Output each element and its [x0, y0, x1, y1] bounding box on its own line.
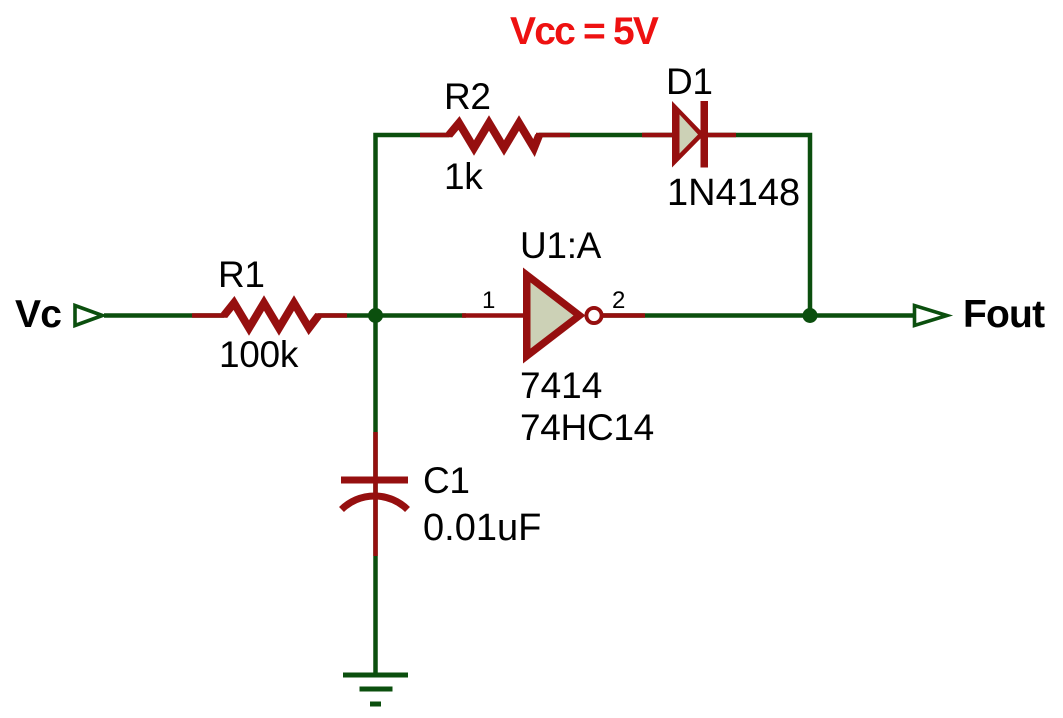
svg-text:2: 2	[612, 287, 625, 314]
svg-text:1: 1	[482, 287, 495, 314]
svg-text:D1: D1	[666, 61, 713, 102]
svg-text:74HC14: 74HC14	[520, 407, 654, 448]
svg-text:C1: C1	[423, 460, 470, 501]
svg-text:1N4148: 1N4148	[667, 172, 800, 214]
svg-text:R2: R2	[444, 76, 491, 117]
svg-text:U1:A: U1:A	[520, 225, 602, 266]
svg-text:1k: 1k	[444, 156, 483, 197]
svg-text:Fout: Fout	[963, 293, 1045, 336]
svg-text:0.01uF: 0.01uF	[423, 507, 541, 549]
svg-text:7414: 7414	[520, 365, 602, 406]
svg-text:R1: R1	[218, 254, 265, 295]
svg-text:Vc: Vc	[15, 293, 61, 336]
svg-text:Vcc = 5V: Vcc = 5V	[510, 10, 659, 53]
svg-text:100k: 100k	[219, 334, 299, 375]
